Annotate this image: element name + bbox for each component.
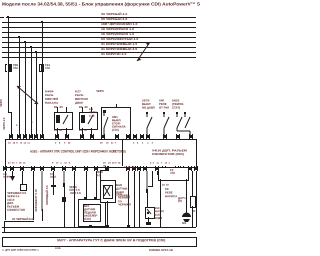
- bus label 15: [101, 28, 134, 31]
- connector blob x64: [62, 197, 66, 202]
- bus rail 15R line 3: [2, 27, 196, 28]
- relay K1: [54, 112, 73, 130]
- wire drop V5 x36: [36, 52, 37, 136]
- bus label 31b: [101, 48, 137, 51]
- ground bus line A: [2, 227, 196, 228]
- F3 label: [170, 169, 175, 175]
- fuse F2 body: [41, 64, 44, 72]
- switch S1 label: [112, 116, 126, 132]
- relay K2 coil: [81, 115, 85, 123]
- relay K2 bottom stubs: [82, 128, 83, 136]
- label right of x96: [97, 171, 103, 178]
- bottom strip label: [57, 239, 165, 242]
- S1 side labels: [89, 108, 97, 118]
- wire x157: [157, 171, 158, 175]
- bottom mid note: [55, 247, 61, 250]
- switch S1 top pin: [116, 104, 117, 107]
- wire label rotated x33: [35, 189, 38, 212]
- ECU control unit box A16/1: [5, 139, 197, 168]
- pin wire labels: [124, 166, 135, 168]
- wire x139: [139, 171, 140, 227]
- rail sensor inner box: [103, 185, 113, 199]
- relay K2 top stub: [82, 107, 83, 112]
- junction dot V2: [18, 36, 20, 38]
- ECU right section label: [152, 149, 187, 156]
- ground W1 label: [182, 222, 186, 225]
- shielded cable grey x64: [63, 171, 65, 184]
- rail sensor cross: [0, 0, 200, 256]
- switch S3: [0, 0, 200, 256]
- bus label 50: [101, 38, 138, 41]
- wire x134: [134, 171, 135, 227]
- bus label 30: [101, 13, 127, 16]
- connector sq x22: [22, 171, 23, 184]
- title: [2, 2, 215, 6]
- cable end x141: [146, 189, 148, 193]
- wire x128: [128, 171, 129, 227]
- fuse F1 label: [13, 64, 18, 70]
- junction dot V4: [30, 46, 32, 48]
- wire V1 lower: [11, 112, 12, 136]
- left elbow wire bottom: [4, 221, 34, 222]
- wire drop V4 x31: [31, 47, 32, 136]
- cable end black x42: [42, 209, 43, 221]
- wire label near S1: [96, 90, 104, 93]
- ECU pin numbers top: [8, 142, 30, 144]
- cable end x64: [63, 183, 65, 187]
- wire below W x5: [5, 171, 6, 220]
- wire x86: [86, 171, 87, 197]
- bottom strip box: [2, 237, 197, 247]
- junction dot V3: [24, 41, 26, 43]
- fuse F1 bracket: [5, 64, 6, 72]
- pump labels: [154, 207, 164, 220]
- relay K1 contact: [0, 0, 200, 256]
- relay K1 top stub: [57, 107, 58, 112]
- wire drop V2 x19: [19, 37, 20, 136]
- fuse F2 bracket: [39, 64, 40, 72]
- relay K1 pin labels: [54, 106, 63, 109]
- resistor R1: [192, 171, 193, 196]
- ECU pin numbers bottom: [8, 162, 25, 164]
- ground bus line B: [2, 232, 196, 233]
- wire x53: [53, 171, 54, 185]
- bus label 30b: [101, 18, 127, 21]
- node label pin V4: [31, 121, 33, 124]
- wire drop V6 x42: [42, 22, 43, 136]
- bus rail 15 line 4: [2, 32, 196, 33]
- switch S1 contact: [0, 0, 200, 256]
- elbow label: [103, 165, 106, 167]
- switch S4 label: [172, 99, 184, 110]
- label right of ground: [192, 210, 196, 213]
- bus rail 15 line 5: [2, 37, 196, 38]
- pedal wire label: [70, 192, 81, 195]
- wire label rotated at V1: [3, 118, 6, 130]
- relay K1 bottom stubs: [57, 128, 58, 136]
- switch stub dots: [146, 112, 148, 114]
- pump switch contact: [0, 0, 200, 256]
- pedal sensor label: [84, 205, 97, 221]
- switch S2: [0, 0, 200, 256]
- crossover jumper D1: [0, 0, 200, 256]
- rail sensor outlet wire: [107, 201, 108, 227]
- F3 bottom pin labels: [162, 184, 169, 186]
- label 30 cherny: [12, 218, 33, 221]
- relay K2: [79, 112, 98, 130]
- pedal sensor outer box B1: [78, 199, 106, 227]
- relay K1 coil: [56, 115, 60, 123]
- wire drop V1 x8: [8, 17, 9, 113]
- bus rail 30 line 2: [2, 22, 196, 23]
- ECU bottom pin row: [3, 166, 7, 171]
- F3 relay box: [158, 167, 189, 181]
- wire from F3 to ground: [186, 179, 187, 214]
- wire label pair x51: [50, 173, 56, 179]
- wire drop V3 x25: [25, 42, 26, 136]
- pedal top pins: [84, 197, 87, 200]
- bus rail 31 line 8: [2, 52, 196, 53]
- fuse F1 body: [9, 64, 12, 72]
- bus label 15b: [101, 33, 134, 36]
- bus label 31a: [101, 43, 137, 46]
- pedal sensor inner box: [83, 204, 101, 222]
- wire x33: [33, 171, 34, 220]
- node label X pin V2: [16, 124, 18, 127]
- node label X4 left of divider: [113, 150, 116, 152]
- small labels row under pins left: [3, 173, 11, 179]
- arrow terminal x12: [12, 171, 13, 176]
- pump relay label: [165, 188, 177, 199]
- bottom left note: [2, 249, 39, 251]
- wire label rotated far left: [0, 99, 3, 107]
- switch S2 label: [142, 99, 155, 110]
- ECU divider: [122, 139, 123, 166]
- fuse F2 label: [45, 64, 50, 70]
- glow relay label K1: [45, 90, 58, 105]
- wire x96: [96, 171, 97, 197]
- switch S4 twin: [0, 0, 200, 256]
- ECU top pin row: [9, 134, 13, 139]
- shielded cable grey x141: [146, 171, 148, 190]
- rail sensor label: [116, 184, 130, 198]
- label near x70: [69, 186, 80, 192]
- junction dot V6: [41, 21, 43, 23]
- ground W1: [0, 0, 200, 256]
- bus rail 31 line 7: [2, 47, 196, 48]
- wire elbow to rail sensor: [100, 170, 108, 171]
- resistor label: [178, 197, 186, 203]
- wire labels mid-bottom: [118, 193, 131, 207]
- connector marks x53: [51, 185, 56, 187]
- bus rail 30 line 1 dash: [0, 17, 4, 18]
- ECU label: [30, 150, 126, 154]
- bus label 15R: [101, 23, 137, 26]
- coolant pump switch box: [145, 207, 155, 219]
- junction ticks on bus A: [89, 225, 92, 227]
- fan relay label K2: [75, 90, 88, 105]
- wire label rotated x46: [46, 185, 49, 205]
- relay K2 contact: [0, 0, 200, 256]
- wire x152 elbow: [152, 171, 153, 187]
- bus rail 50 line 6: [2, 42, 196, 43]
- junction dot V1: [7, 16, 9, 18]
- wire jog V1: [8, 112, 12, 113]
- relay K2 pin labels: [79, 106, 88, 109]
- pump box stub down: [148, 217, 149, 223]
- bus label 31c: [101, 53, 126, 56]
- switch S3 label: [159, 99, 169, 110]
- bottom right note: [149, 249, 173, 252]
- shielded cable grey x42: [41, 171, 43, 211]
- stop lamp switch S1: [101, 107, 131, 141]
- wire from F3 left bottom: [160, 179, 161, 227]
- wire far right x196: [196, 171, 197, 227]
- bus rail 30 line 1: [6, 17, 196, 18]
- wire x74: [74, 171, 75, 227]
- junction dot V5: [35, 51, 37, 53]
- connector label block X4: [7, 192, 26, 212]
- bus rail 31 line 9: [2, 57, 196, 58]
- rail pressure sensor B4 outer box: [100, 180, 116, 203]
